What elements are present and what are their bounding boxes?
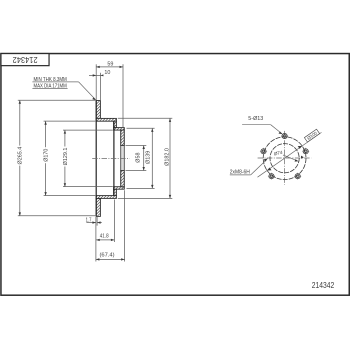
- M8 hole marker right (arrowhead): [301, 156, 304, 159]
- section axis centerline: [92, 157, 129, 159]
- svg-text:Ø139: Ø139: [146, 151, 152, 164]
- value label Ø265.4: [16, 146, 24, 166]
- arrowheads Ø139: [151, 128, 153, 188]
- bolt hole top (Ø13 with boss): [282, 133, 287, 138]
- hat wall, upper cut (hatched): [114, 121, 117, 127]
- arrowheads Ø265.4: [19, 100, 21, 216]
- svg-text:41.8: 41.8: [100, 233, 109, 239]
- bolt hole lower-right (Ø13 with boss): [295, 174, 300, 179]
- value label Ø129.1: [61, 147, 69, 167]
- bore bottom edge: [121, 170, 125, 172]
- hat wall, lower cut (hatched): [114, 189, 117, 195]
- M8 hole marker left (arrowhead): [264, 158, 268, 161]
- Ø74 leader arrowhead: [295, 159, 299, 161]
- note underline 1: [32, 81, 78, 83]
- dimension Ø139 (line + extension lines): [127, 128, 155, 188]
- label 5-Ø13 leader arrowhead: [279, 132, 283, 135]
- bore top edge: [121, 145, 125, 147]
- svg-text:Ø129.1: Ø129.1: [63, 148, 69, 166]
- arrowheads 1.7: [92, 221, 100, 223]
- arrowheads Ø58: [143, 146, 145, 171]
- hub step, lower cut (hatched): [114, 187, 125, 190]
- hat inner wall edge: [113, 121, 115, 195]
- bolt hole cross ticks: [260, 136, 309, 180]
- svg-text:1.7: 1.7: [86, 218, 92, 224]
- svg-text:214342: 214342: [12, 55, 38, 64]
- Ø100 diagonal dimension line: [258, 132, 322, 177]
- bolt hole upper-right (Ø13 with boss): [303, 149, 308, 154]
- note leader arrowhead: [92, 97, 96, 100]
- bolt hole upper-left (Ø13 with boss): [261, 149, 266, 154]
- band left face edge: [95, 100, 97, 216]
- svg-text:(67.4): (67.4): [100, 252, 115, 258]
- dimension 1.7 (line + extension lines): [86, 217, 101, 262]
- Ø74 leader line: [283, 155, 297, 161]
- dimension 59 (line + extension lines): [96, 64, 123, 127]
- dimension 41.8 (line + extension line): [96, 200, 114, 243]
- horizontal centerline: [258, 157, 312, 159]
- dimension (67.4) (line + extension line): [96, 190, 125, 261]
- vertical centerline: [284, 131, 286, 185]
- note leader line: [79, 82, 96, 100]
- hub boss, lower cut (hatched): [121, 171, 125, 187]
- dimension 10 (line + extension line): [89, 73, 103, 100]
- drawing border frame: [1, 54, 349, 296]
- arrowheads Ø170: [44, 121, 46, 195]
- dimension Ø170 (line + extension lines): [44, 121, 96, 196]
- svg-text:59: 59: [107, 61, 113, 67]
- svg-text:Ø58: Ø58: [136, 152, 142, 162]
- svg-text:10: 10: [104, 70, 110, 76]
- hub mounting face edge: [123, 128, 125, 190]
- svg-text:Ø170: Ø170: [44, 149, 50, 162]
- value label Ø100 (boxed, rotated): [304, 129, 319, 142]
- dimension Ø129.1 (line + extension lines): [63, 130, 113, 187]
- disc friction band, upper cut (hatched): [96, 101, 100, 119]
- arrowheads Ø182.0: [169, 118, 171, 198]
- arrowheads Ø129.1: [64, 130, 66, 187]
- svg-text:Ø182.0: Ø182.0: [164, 148, 170, 166]
- dimension Ø182.0 (line + extension lines): [118, 118, 173, 198]
- value label Ø170: [42, 147, 50, 163]
- arrowheads 41.8: [96, 239, 114, 241]
- note underline 2: [32, 88, 67, 90]
- title block box (top-left): [1, 54, 49, 66]
- arrowheads 59: [96, 66, 123, 68]
- label 2xM8-6H underline: [230, 174, 251, 176]
- dimension Ø265.4 (line + extension lines): [18, 100, 96, 216]
- label 2xM8-6H leader line: [251, 160, 267, 175]
- bolt circle Ø100: [263, 137, 306, 180]
- hub step, upper cut (hatched): [114, 128, 125, 131]
- label 5-Ø13 underline: [242, 124, 271, 126]
- hub boss left edge: [120, 130, 122, 187]
- bolt hole lower-left (Ø13 with boss): [269, 174, 274, 179]
- svg-text:Ø265.4: Ø265.4: [18, 147, 24, 165]
- svg-text:5-Ø13: 5-Ø13: [248, 116, 263, 122]
- pilot circle Ø74: [270, 144, 299, 173]
- hub boss, upper cut (hatched): [121, 130, 125, 145]
- label 5-Ø13 leader line: [271, 125, 282, 134]
- arrowheads (67.4): [96, 258, 125, 260]
- disc friction band, lower cut (hatched): [96, 198, 100, 216]
- arrowheads 10: [93, 74, 104, 76]
- dimension Ø58 (line + extension lines): [126, 146, 147, 171]
- hat flange step, lower cut (hatched): [96, 196, 116, 199]
- Ø100 arrowhead lower-left: [267, 168, 271, 171]
- hat flange step, upper cut (hatched): [96, 118, 116, 121]
- Ø100 arrowhead upper-right: [298, 146, 302, 149]
- centre bore silhouette: [121, 146, 125, 171]
- svg-text:214342: 214342: [312, 281, 335, 290]
